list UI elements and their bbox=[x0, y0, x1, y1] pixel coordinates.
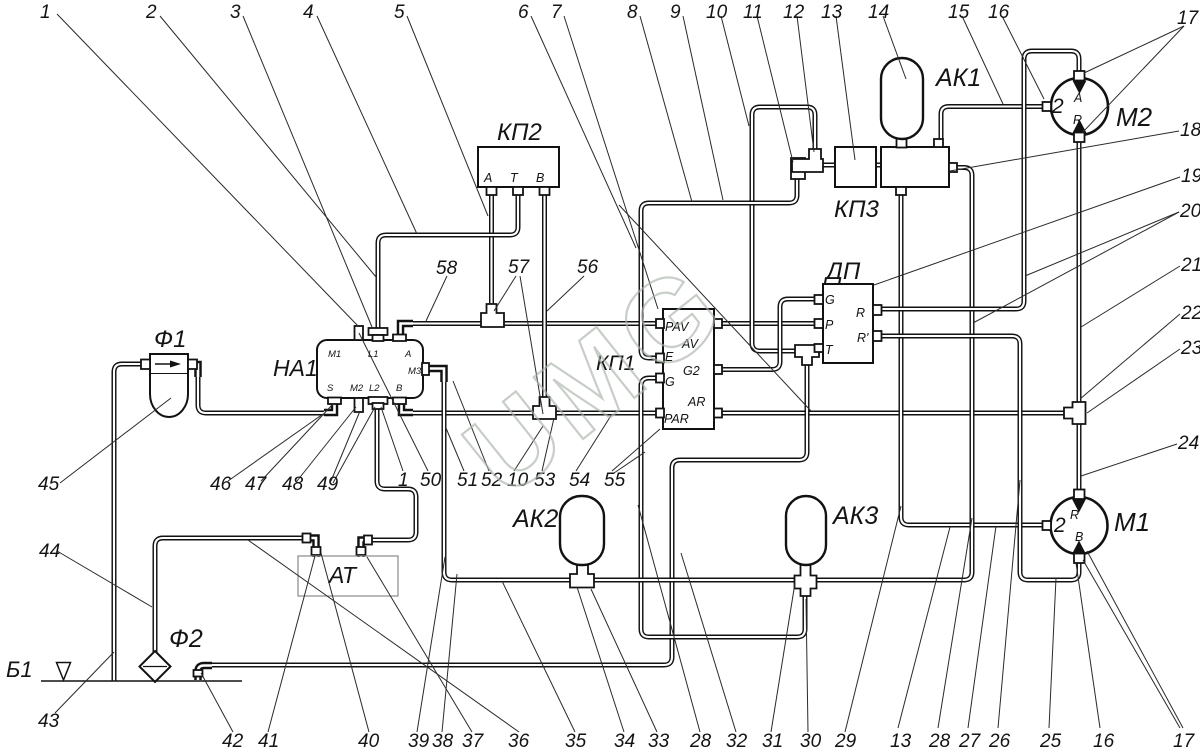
pin B of HA1 bbox=[393, 398, 406, 405]
leader 54 bbox=[576, 414, 612, 471]
elbow at AT left port bbox=[306, 538, 316, 557]
leader 52 bbox=[453, 381, 489, 471]
leader 10 mid bbox=[514, 426, 543, 471]
svg-text:38: 38 bbox=[432, 731, 454, 750]
svg-text:2: 2 bbox=[1053, 514, 1066, 537]
leader 37 bbox=[367, 557, 472, 732]
accumulator AK2 bbox=[560, 496, 604, 565]
svg-text:А: А bbox=[483, 171, 492, 185]
wire KP1 port G to AK3 cross bbox=[641, 378, 805, 637]
svg-text:27: 27 bbox=[958, 731, 982, 750]
svg-text:40: 40 bbox=[358, 731, 380, 750]
pin B of M1 with arrow bbox=[1074, 554, 1085, 564]
svg-text:57: 57 bbox=[508, 257, 531, 278]
motor M1 bbox=[1051, 497, 1108, 554]
wire KP3 to block bbox=[874, 163, 883, 168]
svg-text:19: 19 bbox=[1181, 166, 1200, 187]
svg-text:АК3: АК3 bbox=[831, 502, 878, 530]
leader 19 bbox=[874, 177, 1180, 285]
svg-text:20: 20 bbox=[1179, 201, 1200, 222]
svg-text:14: 14 bbox=[868, 2, 889, 23]
svg-text:15: 15 bbox=[948, 2, 970, 23]
pin top left of block bbox=[897, 139, 907, 148]
pin R of M2 with arrow bbox=[1074, 133, 1085, 143]
svg-text:35: 35 bbox=[565, 731, 587, 750]
svg-text:33: 33 bbox=[648, 731, 670, 750]
leader 18 bbox=[950, 131, 1179, 171]
svg-text:47: 47 bbox=[245, 474, 268, 495]
elbow at HA1 port S bbox=[324, 399, 335, 413]
pin B of KP2 bbox=[540, 187, 550, 195]
wire HA1 port B to KP1 PAR bbox=[411, 411, 658, 416]
svg-text:M1: M1 bbox=[328, 349, 341, 360]
svg-text:10: 10 bbox=[706, 2, 728, 23]
pin bottom of block bbox=[896, 187, 906, 195]
svg-text:30: 30 bbox=[800, 731, 822, 750]
leader 58 bbox=[426, 276, 447, 321]
leader 39 bbox=[417, 557, 445, 732]
leader 50 bbox=[359, 333, 428, 471]
leader 16 bottom bbox=[1076, 563, 1100, 728]
leader 42 bbox=[201, 673, 233, 732]
pin R of M1 with arrow bbox=[1074, 490, 1085, 500]
leader 15 bbox=[962, 16, 1003, 104]
svg-text:32: 32 bbox=[726, 731, 748, 750]
cross below AK3 bbox=[795, 564, 817, 596]
leader 17 top a bbox=[1084, 26, 1184, 73]
leader 49 a bbox=[331, 411, 360, 481]
svg-text:39: 39 bbox=[408, 731, 430, 750]
pump unit HA1 bbox=[317, 340, 423, 398]
cooler AT bbox=[298, 556, 398, 596]
leader 16 top bbox=[1002, 16, 1044, 99]
leader 41 bbox=[268, 556, 315, 732]
svg-text:36: 36 bbox=[508, 731, 530, 750]
svg-text:M2: M2 bbox=[350, 383, 364, 394]
leader 31 bbox=[771, 583, 795, 732]
svg-text:M3: M3 bbox=[408, 366, 422, 377]
leader 24 bbox=[1081, 444, 1177, 476]
svg-text:АК1: АК1 bbox=[934, 64, 981, 92]
svg-text:R: R bbox=[856, 306, 865, 320]
svg-text:12: 12 bbox=[783, 2, 805, 23]
svg-text:37: 37 bbox=[462, 731, 485, 750]
svg-text:НА1: НА1 bbox=[273, 355, 318, 381]
wire tee elbow down to KP1 port E bbox=[641, 170, 797, 358]
valve KP3 bbox=[835, 147, 876, 187]
leader 26 bbox=[998, 480, 1020, 728]
pin A of KP2 bbox=[487, 187, 497, 195]
leader 45 bbox=[60, 398, 171, 483]
svg-text:29: 29 bbox=[834, 731, 857, 750]
wire tee to KP3 bbox=[792, 163, 836, 168]
leader 17 top b bbox=[1082, 26, 1184, 133]
svg-text:13: 13 bbox=[821, 2, 843, 23]
pin A of M2 with arrow bbox=[1074, 71, 1085, 81]
leader 5 bbox=[407, 16, 488, 216]
leader 1 mid bbox=[381, 407, 403, 471]
pin M2 of HA1 plugged stub bbox=[355, 398, 364, 412]
pin T of DP bbox=[815, 344, 824, 352]
pin PAR right of KP1 bbox=[714, 409, 722, 418]
svg-text:8: 8 bbox=[627, 2, 638, 23]
tee left of KP3 bbox=[791, 158, 805, 179]
pin PAV right of KP1 bbox=[714, 319, 722, 328]
wire M2 port A to DP port R bbox=[880, 51, 1079, 309]
wire F1 outlet to HA1 port S bbox=[198, 374, 326, 413]
leader 40 bbox=[321, 553, 369, 732]
svg-text:S: S bbox=[327, 383, 334, 394]
leader 13 top bbox=[836, 16, 855, 160]
leader 35 bbox=[502, 581, 575, 732]
pin 2 of M2 bbox=[1043, 102, 1052, 111]
svg-text:A: A bbox=[1073, 91, 1082, 105]
wire HA1 port L2 to AT cooler bbox=[366, 407, 416, 540]
wire KP1 port G2 to DP port G bbox=[720, 299, 816, 370]
leader 6 bbox=[531, 16, 636, 248]
tee on PAR line below KP2 B bbox=[533, 397, 556, 419]
wire DP port R' to M1 port B bbox=[880, 336, 1079, 580]
leader 30 bbox=[806, 599, 808, 732]
wire HA1 port M3 through AK2 AK3 to block bbox=[444, 168, 972, 581]
svg-text:16: 16 bbox=[988, 2, 1010, 23]
filter F2 bbox=[140, 651, 171, 682]
leader 9 bbox=[683, 16, 723, 200]
svg-text:42: 42 bbox=[222, 731, 244, 750]
collar at AT right fitting bbox=[364, 536, 372, 545]
svg-text:1: 1 bbox=[40, 2, 51, 23]
svg-text:44: 44 bbox=[39, 541, 60, 562]
svg-text:9: 9 bbox=[670, 2, 681, 23]
svg-text:Б1: Б1 bbox=[6, 657, 33, 682]
pin PAV of KP1 bbox=[656, 319, 664, 328]
elbow at AT right port bbox=[361, 540, 368, 557]
pin T of KP2 bbox=[513, 187, 523, 195]
wire KP1 PAV to DP port P bbox=[720, 321, 816, 326]
svg-text:43: 43 bbox=[38, 711, 60, 732]
svg-text:48: 48 bbox=[282, 474, 304, 495]
leader 23 bbox=[1087, 349, 1180, 413]
leader 20 a bbox=[1025, 212, 1179, 276]
svg-text:М1: М1 bbox=[1114, 507, 1150, 537]
svg-text:G: G bbox=[825, 293, 835, 307]
pin A of HA1 bbox=[393, 335, 406, 342]
leader 29 bbox=[845, 506, 901, 732]
pin top right of block bbox=[934, 139, 943, 147]
elbow at tank line to cooler return bbox=[198, 666, 212, 681]
leader 10 top bbox=[721, 16, 749, 126]
leader 21 bbox=[1081, 266, 1180, 327]
leader 7 bbox=[564, 16, 658, 309]
svg-text:55: 55 bbox=[604, 470, 626, 491]
watermark UMG bbox=[442, 238, 750, 521]
pin R of DP bbox=[873, 305, 882, 315]
wire tank elbow to DP tee riser bbox=[208, 360, 807, 665]
svg-text:58: 58 bbox=[436, 258, 458, 279]
leader 27 bbox=[968, 526, 996, 728]
pin PAR of KP1 bbox=[656, 409, 664, 418]
leader 44 bbox=[57, 551, 152, 607]
tee on M2R-M1R line bbox=[1064, 402, 1086, 424]
pin L2 of HA1 bbox=[369, 397, 388, 404]
pilot valve DP bbox=[823, 284, 873, 363]
leader 28 b bbox=[938, 518, 972, 728]
svg-text:L2: L2 bbox=[369, 383, 380, 394]
wire KP2 port A down to tee bbox=[489, 186, 494, 306]
wire tank to filter F1 bbox=[114, 364, 143, 681]
wire HA1 port A to KP1 PAV bbox=[411, 321, 658, 326]
wire block to motor M2 port 2 bbox=[941, 107, 1045, 142]
svg-text:23: 23 bbox=[1180, 338, 1200, 359]
svg-text:51: 51 bbox=[457, 470, 478, 491]
wire KP1 PAR to tee at motor line bbox=[720, 411, 1071, 416]
leader 8 bbox=[640, 16, 692, 202]
svg-text:4: 4 bbox=[303, 2, 314, 23]
svg-text:М2: М2 bbox=[1116, 102, 1153, 132]
pin G2 of KP1 bbox=[714, 365, 722, 374]
leader 57 b bbox=[520, 276, 543, 414]
svg-text:46: 46 bbox=[210, 474, 232, 495]
leader 38 bbox=[442, 574, 457, 732]
wire F2 to AT cooler bbox=[155, 538, 308, 653]
svg-text:7: 7 bbox=[551, 2, 563, 23]
svg-text:28: 28 bbox=[689, 731, 712, 750]
tee at DP port T bbox=[795, 345, 819, 365]
svg-text:2: 2 bbox=[1051, 95, 1064, 118]
leader 51 bbox=[446, 428, 464, 471]
leader 55 a bbox=[612, 429, 660, 471]
svg-text:2: 2 bbox=[145, 2, 157, 23]
svg-text:3: 3 bbox=[230, 2, 241, 23]
svg-text:Ф2: Ф2 bbox=[169, 625, 203, 653]
leader 46 bbox=[228, 414, 323, 481]
accumulator AK1 bbox=[881, 58, 923, 139]
leader 57 a bbox=[494, 276, 516, 311]
leader 17 bottom a bbox=[1083, 560, 1180, 728]
svg-text:5: 5 bbox=[394, 2, 405, 23]
leader 28 a bbox=[638, 505, 700, 732]
svg-text:ДП: ДП bbox=[823, 258, 861, 285]
svg-text:AR: AR bbox=[687, 395, 705, 409]
wire KP2 port B down to tee on PAR line bbox=[542, 186, 547, 400]
elbow at HA1 port B bbox=[402, 399, 414, 413]
pin P of DP bbox=[815, 319, 824, 328]
block with AK1 bbox=[881, 147, 949, 187]
leader 34 bbox=[577, 587, 624, 732]
wire tee to DP port T loop bbox=[752, 107, 816, 351]
leader 53 bbox=[542, 418, 554, 471]
svg-text:28: 28 bbox=[928, 731, 951, 750]
pin right of block bbox=[949, 163, 957, 172]
collar at AT left fitting bbox=[303, 534, 311, 543]
svg-text:PAR: PAR bbox=[664, 412, 689, 426]
svg-text:41: 41 bbox=[258, 731, 279, 750]
wire block to motor M1 port 2 bbox=[901, 193, 1045, 525]
leader crossing line bbox=[619, 205, 811, 411]
leader 43 bbox=[55, 652, 114, 713]
pin inlet of F1 bbox=[141, 360, 150, 370]
pin L1 of HA1 bbox=[369, 328, 388, 335]
tank breather symbol bbox=[57, 663, 71, 681]
svg-text:A: A bbox=[404, 349, 411, 360]
pin G of DP bbox=[815, 295, 824, 304]
svg-text:34: 34 bbox=[614, 731, 635, 750]
motor M2 bbox=[1051, 78, 1108, 135]
filter F1 bbox=[150, 354, 188, 374]
svg-text:В: В bbox=[536, 171, 544, 185]
elbow at F1 outlet bbox=[187, 365, 198, 378]
elbow at HA1 port M3 bbox=[422, 369, 444, 383]
valve block KP1 bbox=[663, 309, 714, 429]
svg-text:18: 18 bbox=[1180, 120, 1200, 141]
svg-text:B: B bbox=[396, 383, 403, 394]
svg-text:P: P bbox=[825, 318, 834, 332]
svg-text:22: 22 bbox=[1180, 303, 1200, 324]
leader 20 b bbox=[973, 212, 1179, 323]
leader 17 bottom b bbox=[1087, 551, 1183, 728]
svg-text:26: 26 bbox=[988, 731, 1011, 750]
svg-text:45: 45 bbox=[38, 474, 60, 495]
svg-text:56: 56 bbox=[577, 257, 599, 278]
svg-text:16: 16 bbox=[1093, 731, 1115, 750]
leader 2 bbox=[160, 16, 376, 277]
svg-text:17: 17 bbox=[1177, 8, 1200, 29]
tank B1 bbox=[41, 680, 242, 682]
svg-text:КП2: КП2 bbox=[497, 119, 542, 146]
svg-text:49: 49 bbox=[317, 474, 339, 495]
svg-text:24: 24 bbox=[1177, 433, 1199, 454]
elbow at HA1 port A bbox=[401, 324, 414, 341]
leader 36 bbox=[248, 540, 519, 732]
leader 13 bottom bbox=[898, 527, 950, 728]
leader 11 bbox=[757, 16, 793, 162]
svg-text:6: 6 bbox=[518, 2, 529, 23]
accumulator AK3 bbox=[786, 496, 826, 565]
leader 14 bbox=[883, 16, 906, 79]
svg-text:1: 1 bbox=[398, 470, 409, 491]
svg-text:Ф1: Ф1 bbox=[154, 326, 186, 353]
svg-text:R': R' bbox=[857, 331, 869, 345]
leader 3 bbox=[243, 16, 372, 327]
svg-text:R: R bbox=[1070, 508, 1079, 522]
svg-text:КП3: КП3 bbox=[834, 196, 880, 223]
leader 33 bbox=[591, 589, 657, 732]
svg-text:11: 11 bbox=[743, 2, 763, 23]
leader 55 b bbox=[614, 452, 645, 473]
leader 48 bbox=[297, 407, 356, 481]
pin G of KP1 bbox=[656, 374, 664, 383]
pin S of HA1 bbox=[328, 398, 341, 405]
tee below AK2 bbox=[570, 564, 594, 588]
pin R' of DP bbox=[873, 331, 882, 341]
pin M1 of HA1 plugged stub bbox=[355, 326, 364, 340]
valve block KP2 bbox=[478, 147, 559, 187]
svg-text:17: 17 bbox=[1173, 731, 1196, 750]
svg-text:50: 50 bbox=[420, 470, 442, 491]
leader 25 bbox=[1049, 578, 1056, 728]
svg-text:31: 31 bbox=[762, 731, 783, 750]
pin E of KP1 bbox=[656, 354, 664, 363]
leader 4 bbox=[317, 16, 417, 234]
svg-text:25: 25 bbox=[1039, 731, 1062, 750]
tee 57 on PAV line bbox=[481, 304, 504, 327]
svg-text:13: 13 bbox=[890, 731, 912, 750]
leader 12 bbox=[797, 16, 814, 152]
leader 49 b bbox=[333, 407, 375, 483]
pin 2 of M1 bbox=[1043, 521, 1052, 530]
leader 47 bbox=[261, 404, 333, 481]
leader 32 bbox=[681, 553, 736, 732]
svg-text:21: 21 bbox=[1180, 255, 1200, 276]
wire KP2 port T to HA1 port L1 bbox=[378, 186, 518, 330]
collar at tank elbow bbox=[194, 670, 203, 677]
leader 1 top bbox=[57, 14, 358, 326]
wire M2 port R to M1 port R bbox=[1077, 140, 1082, 492]
pin M3 of HA1 bbox=[422, 363, 429, 375]
svg-text:АТ: АТ bbox=[327, 562, 358, 588]
pin outlet of F1 bbox=[188, 360, 197, 370]
leader 22 bbox=[1080, 314, 1180, 399]
leader 56 bbox=[547, 276, 584, 311]
